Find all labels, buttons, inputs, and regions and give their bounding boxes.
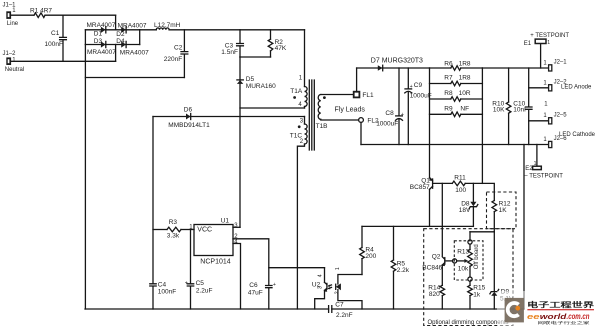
svg-text:R7: R7 (444, 75, 453, 82)
svg-text:+ TESTPOINT: + TESTPOINT (530, 33, 569, 39)
resistor R8 (430, 90, 483, 101)
svg-text:FL1: FL1 (362, 92, 374, 99)
diode D7 (357, 57, 430, 70)
dashed box off board (454, 241, 483, 280)
wire right bus of resistor bank down to R11 (481, 68, 483, 183)
wire top rail to inductor (140, 29, 157, 31)
svg-text:VCC: VCC (197, 227, 212, 234)
svg-text:E1: E1 (524, 41, 532, 47)
wire secondary ground vertical (523, 145, 525, 310)
wire bridge left edge (84, 30, 86, 45)
svg-text:+: + (273, 282, 276, 288)
svg-text:电子工程世界: 电子工程世界 (527, 300, 596, 309)
svg-text:C8: C8 (385, 110, 394, 117)
svg-text:NF: NF (460, 105, 469, 112)
IC U1 NCP1014 (189, 217, 238, 265)
svg-text:C5: C5 (196, 280, 205, 287)
capacitor C1 (45, 15, 67, 61)
svg-text:R9: R9 (444, 105, 453, 112)
capacitor C10 (513, 68, 532, 145)
svg-text:820: 820 (429, 291, 440, 298)
diode bridge branch D3 D4 (85, 44, 139, 46)
svg-text:2.2uF: 2.2uF (196, 287, 213, 294)
wire C3 R2 node (240, 56, 271, 58)
fly lead FL1 (354, 92, 374, 99)
diode D2 (116, 23, 147, 38)
svg-text:R3: R3 (169, 219, 178, 226)
svg-text:E2: E2 (525, 166, 533, 172)
diode bridge branch D1 D2 (85, 29, 139, 31)
diode D3 (87, 38, 116, 56)
svg-text:BC846: BC846 (422, 265, 442, 272)
zener D9 (490, 289, 514, 309)
resistor R14 (428, 285, 444, 309)
wire U1 pin4 (233, 244, 241, 310)
connector J2-5 (543, 112, 567, 123)
resistor R2 (268, 30, 287, 57)
diode D6 (168, 107, 210, 130)
svg-text:1R8: 1R8 (459, 60, 471, 67)
svg-text:网联电子行业之家: 网联电子行业之家 (538, 320, 591, 325)
svg-text:1: 1 (534, 161, 537, 167)
connector J2-2 (543, 80, 592, 108)
capacitor C2 (164, 30, 188, 78)
wire cathode rail (361, 144, 549, 146)
transformer T1B secondary (316, 95, 366, 131)
svg-text:C1: C1 (51, 30, 60, 37)
wire (115, 15, 117, 30)
wire R4 R5 D8 rail (362, 225, 473, 227)
testpoint E1 (524, 33, 570, 68)
capacitor C6 (248, 268, 276, 309)
svg-text:C7: C7 (335, 302, 344, 309)
svg-text:MRA4007: MRA4007 (120, 50, 149, 57)
svg-text:1: 1 (547, 40, 550, 46)
transistor Q2 BC846 (422, 254, 452, 286)
diode D4 (116, 38, 149, 57)
wire (45, 14, 116, 16)
svg-text:220nF: 220nF (164, 56, 182, 63)
resistor R1 (30, 8, 52, 18)
svg-text:100: 100 (455, 187, 466, 194)
svg-text:U1: U1 (221, 217, 230, 224)
svg-text:+: + (401, 112, 404, 118)
svg-text:MRA4007: MRA4007 (118, 23, 147, 30)
resistor R5 (391, 226, 410, 309)
svg-text:2.2k: 2.2k (397, 267, 410, 274)
dashed box optional dimming components (424, 229, 513, 327)
svg-text:Optional dimming components: Optional dimming components (428, 320, 509, 326)
wire neutral (11, 60, 116, 62)
svg-text:D2: D2 (116, 31, 125, 38)
svg-text:MMBD914LT1: MMBD914LT1 (168, 122, 210, 129)
svg-text:2: 2 (335, 291, 341, 294)
resistor R7 (430, 75, 483, 86)
svg-text:Fly Leads: Fly Leads (335, 107, 366, 114)
connector J1-1 (3, 3, 19, 28)
svg-text:LED Anode: LED Anode (561, 84, 592, 90)
wire R12 column down to D9 (493, 232, 495, 292)
svg-text:MURA160: MURA160 (246, 83, 276, 90)
zener D8 (459, 183, 478, 226)
svg-text:NCP1014: NCP1014 (200, 258, 230, 265)
svg-text:C4: C4 (158, 281, 167, 288)
svg-text:R8: R8 (444, 90, 453, 97)
svg-text:LED Cathode: LED Cathode (559, 132, 596, 138)
svg-text:T1B: T1B (316, 123, 328, 130)
wire D5 branch vertical (239, 57, 241, 227)
svg-text:47uF: 47uF (248, 290, 263, 297)
wire U1 pin2 (233, 239, 325, 268)
wire FL2 down to cathode rail (360, 122, 362, 144)
svg-text:1K: 1K (499, 207, 508, 214)
resistor R12 (492, 201, 511, 232)
connector J2-1 (543, 60, 567, 71)
svg-text:C2: C2 (174, 44, 183, 51)
resistor R9 (430, 105, 483, 116)
svg-text:4: 4 (318, 274, 324, 277)
svg-text:D1: D1 (94, 31, 103, 38)
svg-text:Off board: Off board (474, 244, 480, 269)
resistor R11 (433, 175, 483, 194)
svg-text:Line: Line (7, 21, 19, 27)
wire top rail (169, 29, 304, 31)
resistor R6 (430, 60, 483, 70)
svg-text:3: 3 (318, 286, 324, 289)
fly lead FL2 (359, 118, 379, 125)
connector J2-6 (543, 132, 595, 148)
svg-text:10k: 10k (458, 266, 469, 273)
svg-text:C9: C9 (414, 82, 423, 89)
transistor Q1 BC857 (410, 177, 434, 227)
svg-text:1: 1 (335, 267, 341, 270)
svg-text:10nF: 10nF (513, 107, 528, 114)
svg-text:T1A: T1A (290, 88, 303, 95)
capacitor C3 (221, 30, 243, 57)
wire left bus of resistor bank down to Q1 (429, 68, 431, 178)
wire C2 bottom return (85, 77, 184, 79)
svg-text:2.2nF: 2.2nF (336, 312, 353, 319)
wire T1A pin4 (240, 107, 305, 109)
capacitor C5 (185, 230, 213, 310)
svg-text:D4: D4 (116, 38, 125, 45)
svg-text:18V: 18V (459, 207, 471, 214)
svg-text:D3: D3 (94, 38, 103, 45)
svg-text:+: + (410, 84, 413, 90)
wire anode rail to J2-1 (482, 67, 548, 69)
wire bridge negative rail down (84, 45, 86, 310)
svg-text:1000uF: 1000uF (376, 121, 398, 128)
potentiometer R13 (457, 232, 472, 285)
watermark logo eeworld (497, 291, 600, 330)
wire U1 pin3 (233, 226, 240, 228)
wire bridge right edge (139, 30, 141, 45)
svg-text:MRA4007: MRA4007 (87, 49, 116, 56)
svg-text:3.3k: 3.3k (167, 233, 180, 240)
wire R12 branch (482, 183, 494, 200)
svg-text:Neutral: Neutral (5, 67, 24, 73)
optocoupler U2 phototransistor (312, 268, 327, 309)
transformer T1C auxiliary (290, 117, 307, 310)
svg-text:MRA4007: MRA4007 (87, 22, 116, 29)
resistor R15 (468, 285, 486, 309)
resistor R4 (360, 226, 377, 274)
diode D1 (87, 22, 116, 37)
svg-text:D6: D6 (184, 107, 193, 114)
svg-text:R1 4R7: R1 4R7 (30, 8, 52, 15)
svg-text:+: + (185, 281, 188, 287)
diode D5 (237, 76, 276, 90)
svg-text:J1–2: J1–2 (3, 51, 17, 57)
svg-text:C6: C6 (249, 282, 258, 289)
resistor R10 (492, 68, 511, 145)
optocoupler U2 light arrows (328, 285, 332, 290)
wire FL1 up to D7 (356, 68, 358, 92)
connector J1-2 (3, 51, 25, 73)
wire D6 line to T1C pin3 (153, 116, 305, 118)
svg-text:200: 200 (365, 253, 376, 260)
wire (115, 45, 117, 62)
svg-text:1R8: 1R8 (459, 75, 471, 82)
wire R12 bottom to R13 top (470, 231, 494, 233)
svg-text:– TESTPOINT: – TESTPOINT (524, 173, 563, 179)
svg-text:1.5nF: 1.5nF (221, 49, 238, 56)
wire J2-5 stub (529, 120, 549, 122)
optocoupler U2 LED (335, 267, 363, 309)
svg-text:J2–5: J2–5 (554, 112, 568, 118)
inductor L1 2.7mH (154, 22, 181, 30)
svg-text:1000uF: 1000uF (410, 92, 432, 99)
wire left vertical from D6 (152, 117, 154, 284)
svg-text:10K: 10K (493, 107, 505, 114)
transformer core (309, 80, 314, 150)
svg-text:R11: R11 (454, 175, 466, 182)
svg-text:J2–1: J2–1 (554, 60, 568, 66)
svg-text:Q2: Q2 (432, 254, 441, 261)
svg-text:L12.7mH: L12.7mH (154, 22, 181, 29)
svg-text:1k: 1k (473, 291, 481, 298)
potentiometer R13 wiper (453, 259, 469, 263)
svg-text:R13: R13 (457, 249, 469, 256)
svg-text:D7 MURG320T3: D7 MURG320T3 (371, 57, 423, 64)
capacitor C4 (150, 281, 176, 309)
svg-text:BC857: BC857 (410, 184, 430, 191)
wire (11, 14, 34, 16)
capacitor C9 (405, 68, 432, 145)
resistor R3 (153, 219, 194, 239)
svg-text:R6: R6 (444, 60, 453, 67)
testpoint E2 (524, 145, 563, 180)
transformer T1A primary (290, 30, 307, 108)
svg-text:10R: 10R (459, 90, 471, 97)
wire J2-2 stub (529, 87, 549, 89)
wire Q1 base node down to Q2 collector (441, 183, 443, 255)
svg-text:100nF: 100nF (158, 288, 176, 295)
capacitor C8 (376, 68, 404, 145)
dashed box optional dimming components upper lobe (487, 192, 517, 229)
svg-text:47K: 47K (275, 45, 287, 52)
svg-text:100nF: 100nF (45, 41, 63, 48)
capacitor C7 in ground rail (85, 302, 524, 319)
